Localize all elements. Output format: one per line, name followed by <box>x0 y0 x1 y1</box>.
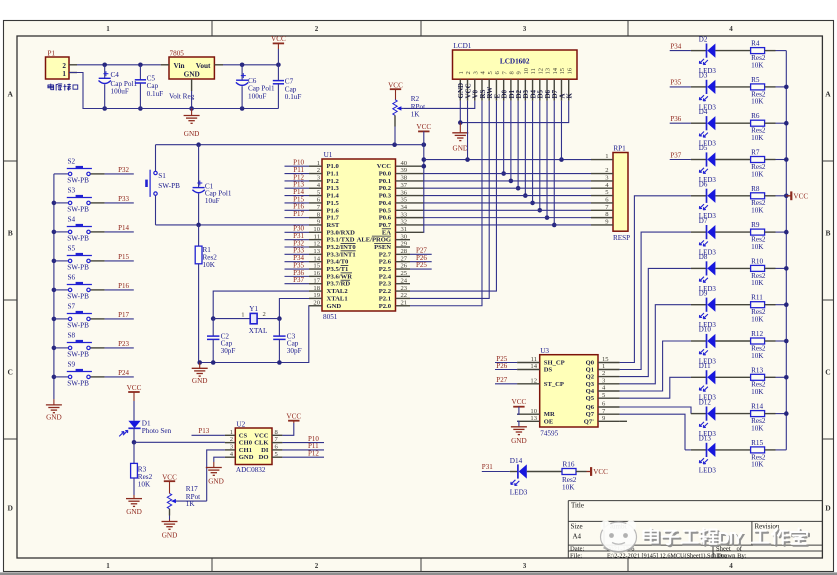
led D12 LED3 <box>691 398 751 438</box>
svg-text:30pF: 30pF <box>221 347 236 355</box>
svg-text:P17: P17 <box>118 311 129 319</box>
ground GND photo <box>126 495 142 516</box>
watermark text <box>644 528 809 549</box>
power port VCC supply <box>271 35 286 49</box>
svg-text:100uF: 100uF <box>248 92 266 100</box>
svg-text:GND: GND <box>162 532 178 540</box>
watermark logo <box>600 520 636 552</box>
svg-text:11: 11 <box>530 68 537 74</box>
wire net P11 <box>285 166 310 174</box>
svg-text:14: 14 <box>552 67 559 74</box>
svg-text:0.1uF: 0.1uF <box>285 93 302 101</box>
wire LCD A pin15 <box>560 101 562 160</box>
svg-text:P2.5: P2.5 <box>379 266 392 273</box>
svg-text:GND: GND <box>511 437 527 445</box>
svg-text:S8: S8 <box>68 332 76 340</box>
ground GND crystal <box>192 363 208 385</box>
resistor R8 10K <box>751 185 787 215</box>
svg-text:10K: 10K <box>751 170 764 178</box>
svg-text:Q2: Q2 <box>586 374 595 381</box>
svg-text:10K: 10K <box>138 480 151 488</box>
svg-text:P2.6: P2.6 <box>379 259 392 266</box>
svg-text:1: 1 <box>241 312 244 319</box>
svg-text:P3.3/INT1: P3.3/INT1 <box>327 251 356 258</box>
svg-text:P24: P24 <box>118 369 129 377</box>
svg-text:10: 10 <box>313 226 320 233</box>
svg-text:26: 26 <box>401 263 408 270</box>
svg-text:D5: D5 <box>699 144 708 152</box>
svg-text:LCD1602: LCD1602 <box>500 57 530 65</box>
capacitor C1 10uF <box>192 145 231 225</box>
svg-text:D10: D10 <box>699 326 712 334</box>
svg-text:13: 13 <box>530 415 537 422</box>
svg-text:10K: 10K <box>751 352 764 360</box>
wire Q7 to LED D13 <box>620 414 685 450</box>
svg-text:DS: DS <box>544 367 553 374</box>
svg-text:P1: P1 <box>48 50 56 58</box>
wire net P12 <box>282 449 324 457</box>
ground GND r17 <box>162 520 178 540</box>
svg-text:XTAL: XTAL <box>249 327 268 335</box>
svg-text:12: 12 <box>313 241 320 248</box>
wire P0.4 bus <box>424 202 591 204</box>
power port VCC d14 <box>587 467 609 476</box>
svg-text:R9: R9 <box>751 221 760 229</box>
svg-text:16: 16 <box>313 270 320 277</box>
svg-text:1: 1 <box>458 71 465 74</box>
svg-text:30: 30 <box>401 233 408 240</box>
svg-text:2: 2 <box>317 167 320 174</box>
resistor R7 10K <box>751 149 787 179</box>
svg-text:15: 15 <box>559 67 566 74</box>
svg-text:P2.1: P2.1 <box>379 295 391 302</box>
switch S9 SW-PB <box>54 361 105 388</box>
svg-text:DI: DI <box>261 447 269 454</box>
wire R2 wiper to LCD V0 <box>403 101 474 109</box>
svg-text:D4: D4 <box>699 108 708 116</box>
svg-text:ADC0832: ADC0832 <box>236 466 266 474</box>
wire Q4 to LED D10 <box>620 341 663 391</box>
wire net P25 <box>410 261 432 269</box>
svg-text:R16: R16 <box>563 461 575 469</box>
svg-text:P1.7: P1.7 <box>327 215 340 222</box>
svg-text:1: 1 <box>62 70 66 78</box>
wire ADC GND <box>214 457 225 467</box>
svg-text:P3.6/WR: P3.6/WR <box>327 273 353 280</box>
svg-text:P1.5: P1.5 <box>327 200 340 207</box>
wire net P37 <box>285 276 310 284</box>
wire D1 to ADC CH0 <box>132 428 225 444</box>
resistor R6 10K <box>751 112 787 142</box>
svg-text:P2.7: P2.7 <box>379 251 392 258</box>
wire net P16 <box>285 203 310 211</box>
svg-text:15: 15 <box>313 263 320 270</box>
svg-text:P16: P16 <box>118 282 129 290</box>
svg-text:R12: R12 <box>751 330 763 338</box>
svg-text:XTAL1: XTAL1 <box>327 295 348 302</box>
svg-text:SW-PB: SW-PB <box>158 182 180 190</box>
svg-text:VCC: VCC <box>162 473 177 481</box>
svg-text:S5: S5 <box>68 245 76 253</box>
svg-text:P0.0: P0.0 <box>379 171 392 178</box>
svg-text:SH_CP: SH_CP <box>544 360 565 367</box>
svg-text:10: 10 <box>523 67 530 74</box>
wire net P30 <box>285 225 310 233</box>
svg-text:2: 2 <box>465 71 472 74</box>
svg-text:10K: 10K <box>751 388 764 396</box>
svg-text:10K: 10K <box>751 134 764 142</box>
svg-text:38: 38 <box>401 175 408 182</box>
svg-text:SW-PB: SW-PB <box>67 350 89 358</box>
svg-text:R5: R5 <box>751 76 760 84</box>
wire net P36 <box>285 269 310 277</box>
svg-text:A: A <box>825 90 831 99</box>
svg-text:SW-PB: SW-PB <box>67 176 89 184</box>
wire LCD D7 to P0.7 <box>552 101 557 228</box>
svg-text:10: 10 <box>530 408 537 415</box>
wire 7805 Vout to VCC <box>223 49 281 80</box>
svg-text:10K: 10K <box>203 261 216 269</box>
wire R17 wiper to ADC CH1 <box>207 450 225 501</box>
wire P0.6 bus <box>424 217 591 219</box>
svg-text:E:\2-22-2021 [9145] 12.6MCU(Sh: E:\2-22-2021 [9145] 12.6MCU(Sheet1).SchD… <box>607 552 727 559</box>
wire net P36 <box>670 115 681 123</box>
svg-text:P2.3: P2.3 <box>379 281 392 288</box>
resistor pack RP1 RESP <box>591 145 630 242</box>
svg-text:S4: S4 <box>68 216 76 224</box>
ground GND power section <box>184 109 200 139</box>
resistor R9 10K <box>751 221 787 251</box>
svg-text:ST_CP: ST_CP <box>544 381 564 388</box>
svg-text:P0.7: P0.7 <box>379 222 392 229</box>
wire key bus to ground <box>52 174 57 399</box>
svg-text:3: 3 <box>523 25 527 33</box>
svg-text:P32: P32 <box>118 166 129 174</box>
svg-text:30pF: 30pF <box>287 347 302 355</box>
capacitor C5 0.1uF <box>135 65 163 109</box>
power port VCC adc <box>286 412 301 423</box>
svg-text:GND: GND <box>327 303 342 310</box>
svg-text:GND: GND <box>453 144 469 152</box>
svg-text:17: 17 <box>313 277 320 284</box>
wire net P15 <box>105 253 134 261</box>
svg-text:VCC: VCC <box>793 192 808 200</box>
voltage regulator U 7805 <box>161 50 223 101</box>
wire LCD E to P2.2 <box>410 101 496 291</box>
resistor R16 10K <box>562 461 587 492</box>
wire net P33 <box>105 195 134 203</box>
svg-text:P1.6: P1.6 <box>327 207 340 214</box>
wire ADC VCC <box>282 423 293 435</box>
wire net P13 <box>285 181 310 189</box>
wire net P14 <box>285 188 310 196</box>
capacitor C2 30pF <box>207 319 235 363</box>
svg-text:RP1: RP1 <box>613 145 626 153</box>
switch S1 SW-PB <box>145 170 180 197</box>
wire RST rail <box>156 223 310 228</box>
svg-text:Q1: Q1 <box>586 367 594 374</box>
wire XTAL1 to Y1 <box>277 299 309 321</box>
svg-text:DIY: DIY <box>718 529 745 548</box>
svg-text:21: 21 <box>401 299 408 306</box>
capacitor C3 30pF <box>273 319 301 363</box>
svg-text:39: 39 <box>401 167 408 174</box>
svg-text:13: 13 <box>545 67 552 74</box>
svg-text:P0.1: P0.1 <box>379 178 391 185</box>
svg-text:Q3: Q3 <box>586 381 595 388</box>
svg-text:13: 13 <box>313 248 320 255</box>
svg-text:100uF: 100uF <box>111 88 129 96</box>
wire net P33 <box>285 247 310 255</box>
svg-text:VCC: VCC <box>388 81 403 89</box>
svg-text:A: A <box>7 90 13 99</box>
wire P1 pin2 to 7805 Vin <box>77 63 161 68</box>
svg-text:R4: R4 <box>751 40 760 48</box>
svg-text:1: 1 <box>230 429 233 436</box>
svg-text:SW-PB: SW-PB <box>67 234 89 242</box>
svg-text:10K: 10K <box>751 316 764 324</box>
power port VCC photo <box>127 384 142 401</box>
svg-text:P3.0/RXD: P3.0/RXD <box>327 229 356 236</box>
svg-text:D6: D6 <box>699 181 708 189</box>
capacitor C4 100uF <box>99 65 138 109</box>
wire net P35 <box>670 79 681 87</box>
svg-text:P37: P37 <box>670 151 681 159</box>
svg-text:SW-PB: SW-PB <box>67 263 89 271</box>
svg-text:D14: D14 <box>510 457 523 465</box>
svg-text:Size: Size <box>571 522 583 530</box>
svg-text:Photo Sen: Photo Sen <box>142 427 172 435</box>
svg-text:CH1: CH1 <box>239 447 252 454</box>
svg-text:S7: S7 <box>68 303 76 311</box>
wire P0.2 bus <box>424 187 591 189</box>
svg-text:24: 24 <box>401 277 408 284</box>
wire net P32 <box>285 239 310 247</box>
pin Q7' stub <box>620 420 627 422</box>
svg-text:Q7': Q7' <box>584 418 594 425</box>
svg-text:R10: R10 <box>751 257 763 265</box>
svg-text:P12: P12 <box>308 449 319 457</box>
wire net P35 <box>285 261 310 269</box>
svg-text:XTAL2: XTAL2 <box>327 288 349 295</box>
wire P0.7 bus <box>424 224 591 226</box>
svg-text:16: 16 <box>566 67 573 74</box>
led D7 LED3 <box>641 217 751 257</box>
svg-text:D11: D11 <box>699 362 711 370</box>
svg-text:DO: DO <box>259 454 269 461</box>
svg-text:36: 36 <box>401 189 408 196</box>
svg-text:12: 12 <box>537 68 544 75</box>
svg-text:P34: P34 <box>670 42 681 50</box>
wire P0.1 bus <box>424 180 591 182</box>
svg-text:P17: P17 <box>293 210 304 218</box>
svg-text:3: 3 <box>523 562 527 570</box>
wire net P23 <box>105 340 134 348</box>
svg-text:1K: 1K <box>186 500 196 508</box>
wire 7805 GND to ground rail <box>189 91 194 111</box>
svg-text:Q4: Q4 <box>586 388 595 395</box>
svg-text:D2: D2 <box>699 35 708 43</box>
wire LCD VCC pin2 <box>467 101 469 160</box>
svg-text:R14: R14 <box>751 403 763 411</box>
wire net P31 <box>482 463 510 472</box>
svg-text:1: 1 <box>602 363 605 370</box>
wire Q2 to LED D8 <box>620 268 649 376</box>
wire net P26 <box>495 362 517 370</box>
svg-text:C: C <box>7 368 12 377</box>
wire LCD RW to P2.1 <box>410 101 489 299</box>
svg-text:File:: File: <box>570 552 582 559</box>
resistor R11 10K <box>751 294 787 324</box>
wire VCC rail to reset circuit <box>156 142 427 171</box>
shift register U3 74595 <box>517 347 620 438</box>
svg-text:P3.2/INT0: P3.2/INT0 <box>327 244 357 251</box>
svg-text:10uF: 10uF <box>205 197 220 205</box>
wire P0.5 bus <box>424 209 591 211</box>
svg-text:P27: P27 <box>496 376 507 384</box>
svg-text:Volt Reg: Volt Reg <box>169 93 195 101</box>
svg-text:14: 14 <box>313 255 320 262</box>
resistor R4 10K <box>751 40 787 70</box>
svg-text:33: 33 <box>401 211 408 218</box>
svg-text:S9: S9 <box>68 361 76 369</box>
svg-text:25: 25 <box>401 270 408 277</box>
resistor R13 10K <box>751 366 787 396</box>
svg-text:P2.2: P2.2 <box>379 288 392 295</box>
svg-text:2: 2 <box>315 562 319 570</box>
wire net P12 <box>285 173 310 181</box>
svg-text:P3.4/T0: P3.4/T0 <box>327 259 349 266</box>
svg-text:Date:: Date: <box>570 545 584 552</box>
led D8 LED3 <box>648 253 750 293</box>
svg-text:R6: R6 <box>751 112 760 120</box>
svg-text:VCC: VCC <box>377 163 392 170</box>
led D10 LED3 <box>663 326 751 366</box>
svg-text:LED3: LED3 <box>699 466 717 474</box>
svg-text:P2.4: P2.4 <box>379 273 392 280</box>
wire net P25 <box>495 355 517 363</box>
svg-text:18: 18 <box>313 285 320 292</box>
svg-text:CLK: CLK <box>254 440 269 447</box>
svg-text:10K: 10K <box>562 484 575 492</box>
wire net P26 <box>410 254 432 262</box>
wire P0.3 bus <box>424 195 591 197</box>
svg-text:U3: U3 <box>540 347 549 355</box>
svg-text:RST: RST <box>327 222 340 229</box>
svg-text:D12: D12 <box>699 398 712 406</box>
svg-text:12: 12 <box>530 377 537 384</box>
svg-text:1: 1 <box>106 562 110 570</box>
power port VCC 74595 MR <box>512 398 527 414</box>
svg-text:S2: S2 <box>68 158 76 166</box>
wire net P27 <box>410 247 432 255</box>
svg-text:B: B <box>8 229 13 238</box>
svg-text:P0.5: P0.5 <box>379 207 392 214</box>
svg-text:GND: GND <box>184 70 200 79</box>
svg-text:R7: R7 <box>751 149 760 157</box>
wire net P13 <box>192 427 225 435</box>
led D14 LED3 <box>510 457 562 497</box>
photodiode D1 Photo Sen <box>119 401 171 436</box>
svg-text:EA: EA <box>382 229 391 236</box>
wire net P10 <box>282 435 324 443</box>
svg-text:C4: C4 <box>111 71 120 79</box>
svg-text:1: 1 <box>317 160 320 167</box>
wire net P17 <box>285 210 310 218</box>
led D13 LED3 <box>685 435 751 475</box>
svg-text:U1: U1 <box>324 151 333 159</box>
svg-text:2: 2 <box>315 25 319 33</box>
svg-text:20: 20 <box>313 299 320 306</box>
svg-text:D: D <box>825 504 831 513</box>
wire Q5 to LED D11 <box>620 377 670 398</box>
svg-text:P26: P26 <box>496 362 507 370</box>
switch S8 SW-PB <box>54 332 105 359</box>
svg-text:27: 27 <box>401 255 408 262</box>
svg-text:SW-PB: SW-PB <box>67 321 89 329</box>
led D4 LED3 <box>670 108 751 148</box>
svg-text:D9: D9 <box>699 289 708 297</box>
wire S1 to RST rail <box>155 196 157 225</box>
svg-text:37: 37 <box>401 182 408 189</box>
ground GND 74595 OE <box>511 421 527 445</box>
svg-text:10K: 10K <box>751 424 764 432</box>
wire net P37 <box>670 151 681 159</box>
svg-text:23: 23 <box>401 285 408 292</box>
svg-text:GND: GND <box>208 478 224 486</box>
svg-text:15: 15 <box>602 356 609 363</box>
svg-text:SW-PB: SW-PB <box>67 379 89 387</box>
svg-text:R8: R8 <box>751 185 760 193</box>
svg-text:P23: P23 <box>118 340 129 348</box>
switch S2 SW-PB <box>54 158 105 185</box>
switch S7 SW-PB <box>54 303 105 330</box>
svg-text:R13: R13 <box>751 366 763 374</box>
led D9 LED3 <box>655 289 750 329</box>
switch S4 SW-PB <box>54 216 105 243</box>
wire Q3 to LED D9 <box>620 305 656 384</box>
svg-text:P14: P14 <box>118 224 129 232</box>
svg-text:2: 2 <box>605 167 608 174</box>
svg-text:P31: P31 <box>482 463 493 471</box>
wire LCD D0 to P0.0 <box>501 101 506 176</box>
connector P1 <box>46 50 78 91</box>
svg-text:VCC: VCC <box>286 412 301 420</box>
svg-text:U2: U2 <box>236 421 245 429</box>
svg-text:R2: R2 <box>411 95 420 103</box>
svg-text:P0.2: P0.2 <box>379 185 392 192</box>
wire net P14 <box>105 224 134 232</box>
wire net P11 <box>282 442 324 450</box>
svg-text:P0.6: P0.6 <box>379 215 392 222</box>
wire Q6 to LED D12 <box>620 407 691 414</box>
svg-text:SW-PB: SW-PB <box>67 205 89 213</box>
svg-text:GND: GND <box>126 508 142 516</box>
svg-text:P0.3: P0.3 <box>379 193 392 200</box>
svg-text:P2.0: P2.0 <box>379 303 392 310</box>
led D5 LED3 <box>670 144 751 184</box>
ground GND adc <box>206 468 224 486</box>
svg-text:VCC: VCC <box>512 398 527 406</box>
svg-text:GND: GND <box>184 130 200 138</box>
svg-text:RESP: RESP <box>613 234 630 242</box>
svg-text:P1.4: P1.4 <box>327 193 340 200</box>
svg-text:1: 1 <box>106 25 110 33</box>
resistor R3 10K <box>131 442 153 495</box>
wire net P34 <box>285 254 310 262</box>
svg-text:P13: P13 <box>198 427 209 435</box>
mcu U1 8051 <box>309 151 424 321</box>
